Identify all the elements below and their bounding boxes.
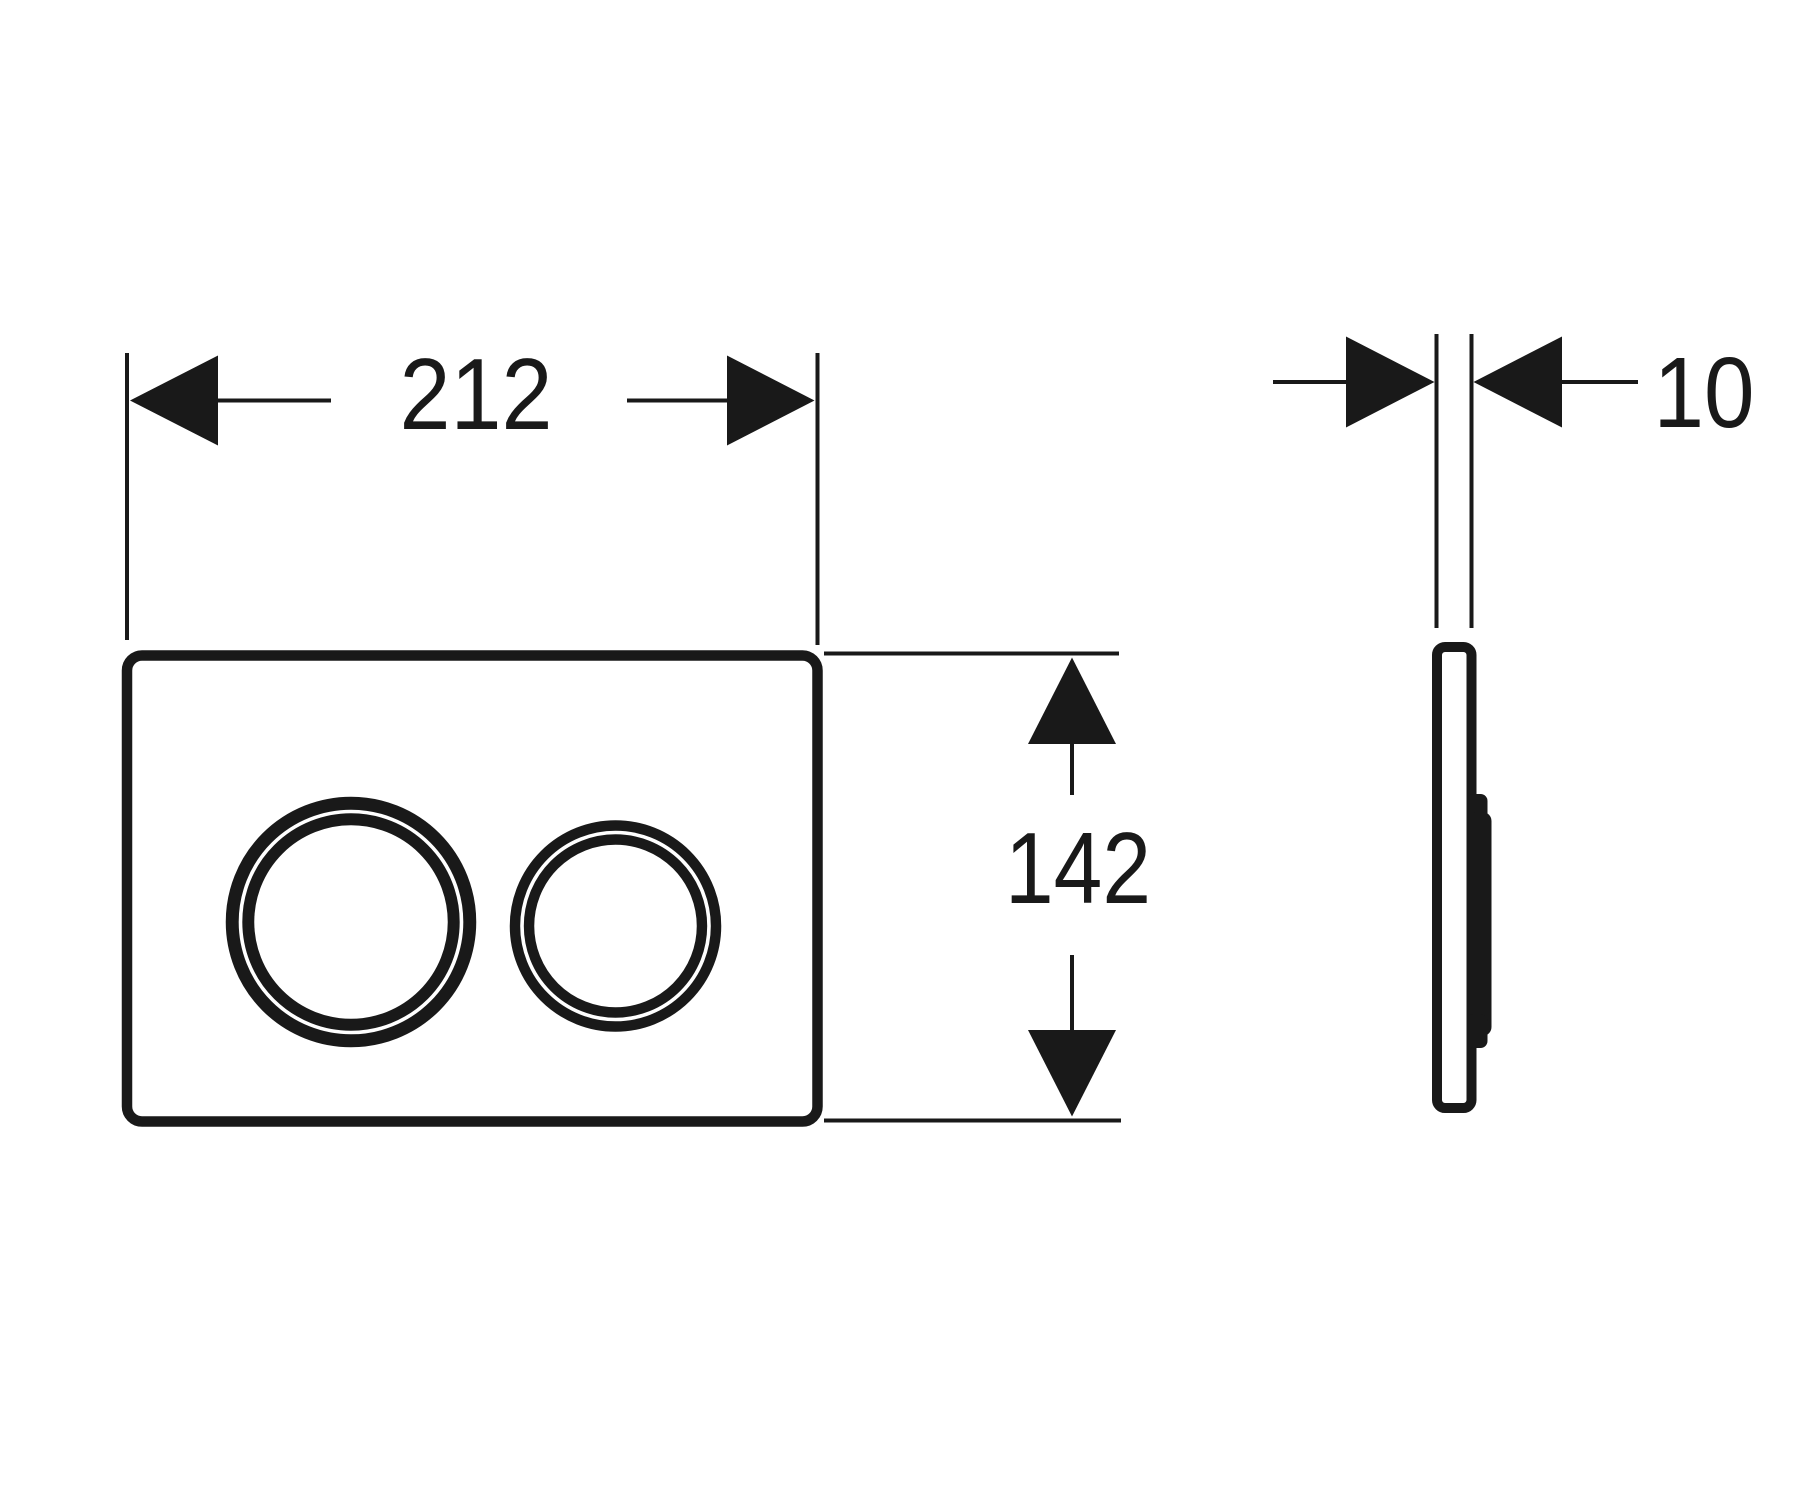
dimension 10: left extension line <box>1435 334 1439 628</box>
dimension 212: right arrowhead <box>727 356 815 446</box>
dimension 10: left arrowhead pointing right <box>1346 337 1435 428</box>
dimension 212: right extension line <box>816 353 820 645</box>
small button inner white circle <box>522 833 709 1020</box>
svg-text:212: 212 <box>400 339 553 451</box>
dimension 212: left arrowhead <box>130 356 218 446</box>
small button ring <box>522 833 709 1020</box>
dimension 212: left dimension line segment <box>140 399 331 403</box>
dimension 142: up arrowhead <box>1028 658 1116 745</box>
flush plate side view outline <box>1437 647 1472 1108</box>
side view button protrusion main body <box>1467 812 1492 1036</box>
dimension 142: bottom extension line <box>824 1119 1121 1123</box>
svg-text:142: 142 <box>1005 813 1151 925</box>
big button ring <box>240 811 462 1033</box>
dimension 10: left dimension line segment <box>1273 380 1350 384</box>
dimension 142: upper dimension line segment <box>1070 744 1074 795</box>
dimension 142: down arrowhead <box>1028 1030 1116 1117</box>
side view button protrusion top step <box>1467 794 1488 834</box>
dimension 212: right dimension line segment <box>627 399 805 403</box>
dimension 142: top extension line <box>824 652 1119 656</box>
dimension 10: right dimension line segment <box>1558 380 1638 384</box>
dimension 142: lower dimension line segment <box>1070 955 1074 1030</box>
side view button protrusion bottom step <box>1467 1014 1488 1048</box>
dimension 10: right arrowhead pointing left <box>1474 337 1563 428</box>
svg-text:10: 10 <box>1654 337 1755 449</box>
dimension 10: right extension line <box>1470 334 1474 628</box>
flush plate front view outline <box>127 656 818 1122</box>
big button inner white circle <box>241 812 462 1033</box>
dimension 212: left extension line <box>125 353 129 640</box>
